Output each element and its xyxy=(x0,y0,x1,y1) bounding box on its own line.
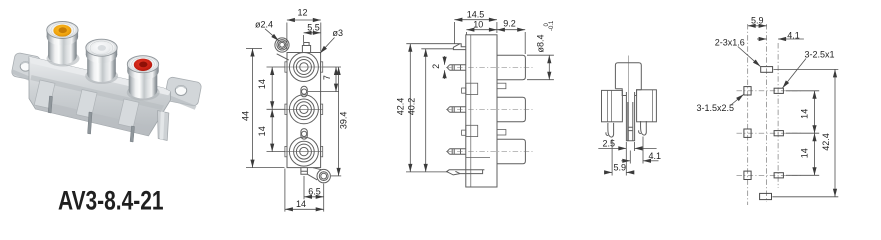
svg-text:5.5: 5.5 xyxy=(307,22,320,32)
FP bottom mounting pad 3x1.6 xyxy=(760,193,772,199)
FP dimension 42.4 xyxy=(772,69,838,196)
SV pin 2 xyxy=(447,107,466,112)
EV pin channel inner xyxy=(628,102,633,141)
svg-text:6.5: 6.5 xyxy=(308,187,321,197)
right mounting ear (photo) xyxy=(163,76,202,109)
FP signal pad 2 xyxy=(774,131,783,136)
FV divider slot 2 xyxy=(301,129,307,140)
svg-text:42.4: 42.4 xyxy=(821,133,831,151)
svg-text:3-2.5x1: 3-2.5x1 xyxy=(805,49,835,59)
SV pin 1 xyxy=(447,65,466,70)
svg-text:14.5: 14.5 xyxy=(467,9,485,19)
photo right foot bracket xyxy=(158,111,169,141)
FP dimension 5.9 xyxy=(748,25,767,27)
photo pin 2 xyxy=(88,112,92,134)
svg-text:40.2: 40.2 xyxy=(407,98,417,116)
FV bottom tab xyxy=(301,168,308,175)
SV solder foot xyxy=(447,170,485,175)
svg-text:ø3: ø3 xyxy=(333,28,344,38)
svg-text:12: 12 xyxy=(297,8,307,18)
FV dimension 44 xyxy=(246,49,285,168)
SV dimension 2 (pin) xyxy=(444,56,446,79)
FV bottom ear hole rings xyxy=(319,172,328,181)
EV left block xyxy=(602,90,623,121)
svg-text:39.4: 39.4 xyxy=(339,112,349,130)
SV pin 3 xyxy=(447,149,466,154)
FV top tab xyxy=(302,43,310,53)
FP signal pad 3 xyxy=(774,173,783,178)
svg-text:AV3-8.4-21: AV3-8.4-21 xyxy=(58,186,164,216)
jack 1 cylinder (yellow) xyxy=(47,22,80,67)
SV dimension 42.4 xyxy=(406,44,460,172)
EV top block xyxy=(615,63,641,90)
EV centerline xyxy=(628,56,630,142)
svg-text:14: 14 xyxy=(800,109,810,119)
FP row centerlines xyxy=(737,91,803,176)
EV right leg hook xyxy=(639,121,647,135)
svg-text:5.9: 5.9 xyxy=(614,162,627,172)
FV jack 3 circles xyxy=(285,137,323,166)
svg-text:44: 44 xyxy=(241,111,251,121)
FP signal pad 1 (2.5x1) xyxy=(774,88,783,93)
svg-text:2: 2 xyxy=(431,64,441,69)
FP ground pad 3 xyxy=(744,171,751,179)
SV left recesses and tabs xyxy=(466,83,478,94)
photo pin 1 xyxy=(48,96,52,113)
SV dimension 10 xyxy=(466,30,497,35)
svg-text:14: 14 xyxy=(296,199,306,209)
svg-text:7: 7 xyxy=(322,75,332,80)
FP top mounting pad 3x1.6 xyxy=(761,67,773,73)
EV left leg hook xyxy=(606,123,614,137)
photo divider blocks on front face xyxy=(34,80,55,108)
SV housing xyxy=(466,35,497,187)
FP ground pad 1 (1.5x2.5) xyxy=(744,87,751,95)
SV top latch tab xyxy=(453,44,465,50)
FV top ear lobe xyxy=(275,38,289,52)
SV dimension 9.2 xyxy=(497,30,525,54)
SV dimension 14.5 xyxy=(454,20,497,44)
svg-text:10: 10 xyxy=(473,19,483,29)
EV right block xyxy=(637,90,657,122)
SV right notches between barrels xyxy=(497,83,506,89)
svg-text:4.1: 4.1 xyxy=(649,151,662,161)
FP ground pad 2 xyxy=(744,129,751,137)
EV center steps under top block xyxy=(615,89,641,96)
FV dimension 7 xyxy=(308,67,341,92)
EV dimension 2.5 xyxy=(598,142,656,176)
svg-text:14: 14 xyxy=(257,79,267,89)
svg-text:14: 14 xyxy=(257,126,267,136)
FP dimensions 14/14 xyxy=(786,91,819,176)
svg-text:-0.1: -0.1 xyxy=(549,20,555,31)
FV dimension 14 (bottom) xyxy=(285,169,324,212)
EV dimension 5.9 xyxy=(605,139,634,176)
svg-text:5.9: 5.9 xyxy=(751,15,764,25)
FV bottom ear lobe xyxy=(317,169,330,182)
svg-text:9.2: 9.2 xyxy=(503,19,516,29)
svg-text:14: 14 xyxy=(800,148,810,158)
left mounting ear (photo) xyxy=(10,52,41,83)
FV dimension 39.4 xyxy=(331,67,341,176)
photo pin 3 xyxy=(130,126,134,142)
svg-text:4.1: 4.1 xyxy=(787,31,800,41)
SV barrel 2 xyxy=(497,97,525,122)
SV dimension 40.2 xyxy=(421,49,453,172)
jack 3 cylinder (red) xyxy=(127,56,160,101)
FV jack 1 circles xyxy=(285,53,323,82)
SV barrel centerlines xyxy=(446,68,533,152)
svg-text:2-3x1.6: 2-3x1.6 xyxy=(715,37,745,47)
svg-text:2.5: 2.5 xyxy=(603,138,616,148)
SV barrel 1 xyxy=(497,55,525,79)
FV body outline xyxy=(287,53,321,168)
FV dimension 12 xyxy=(287,20,321,52)
EV dimension 4.1 xyxy=(621,137,658,164)
FV dimension 5.5 xyxy=(304,33,321,42)
FV divider slot 1 xyxy=(301,86,307,97)
FV top ear hole rings xyxy=(277,40,287,50)
SV dimension φ8.4 0/-0.1 xyxy=(527,55,554,79)
FP dimension 4.1 xyxy=(757,38,804,40)
svg-text:ø8.4: ø8.4 xyxy=(536,34,546,52)
FP vertical centerlines xyxy=(748,24,778,205)
EV center column xyxy=(626,92,634,141)
photo body bar xyxy=(29,57,171,136)
svg-text:42.4: 42.4 xyxy=(396,98,406,116)
svg-text:ø2.4: ø2.4 xyxy=(255,19,273,29)
SV barrel 3 xyxy=(497,139,525,164)
FV dimension 6.5 xyxy=(304,176,324,212)
FV jack 2 circles xyxy=(285,95,323,124)
svg-text:3-1.5x2.5: 3-1.5x2.5 xyxy=(697,103,735,113)
jack 2 cylinder (white) xyxy=(85,39,118,84)
FV dimensions 14 / 14 (jack pitch) xyxy=(267,67,286,152)
